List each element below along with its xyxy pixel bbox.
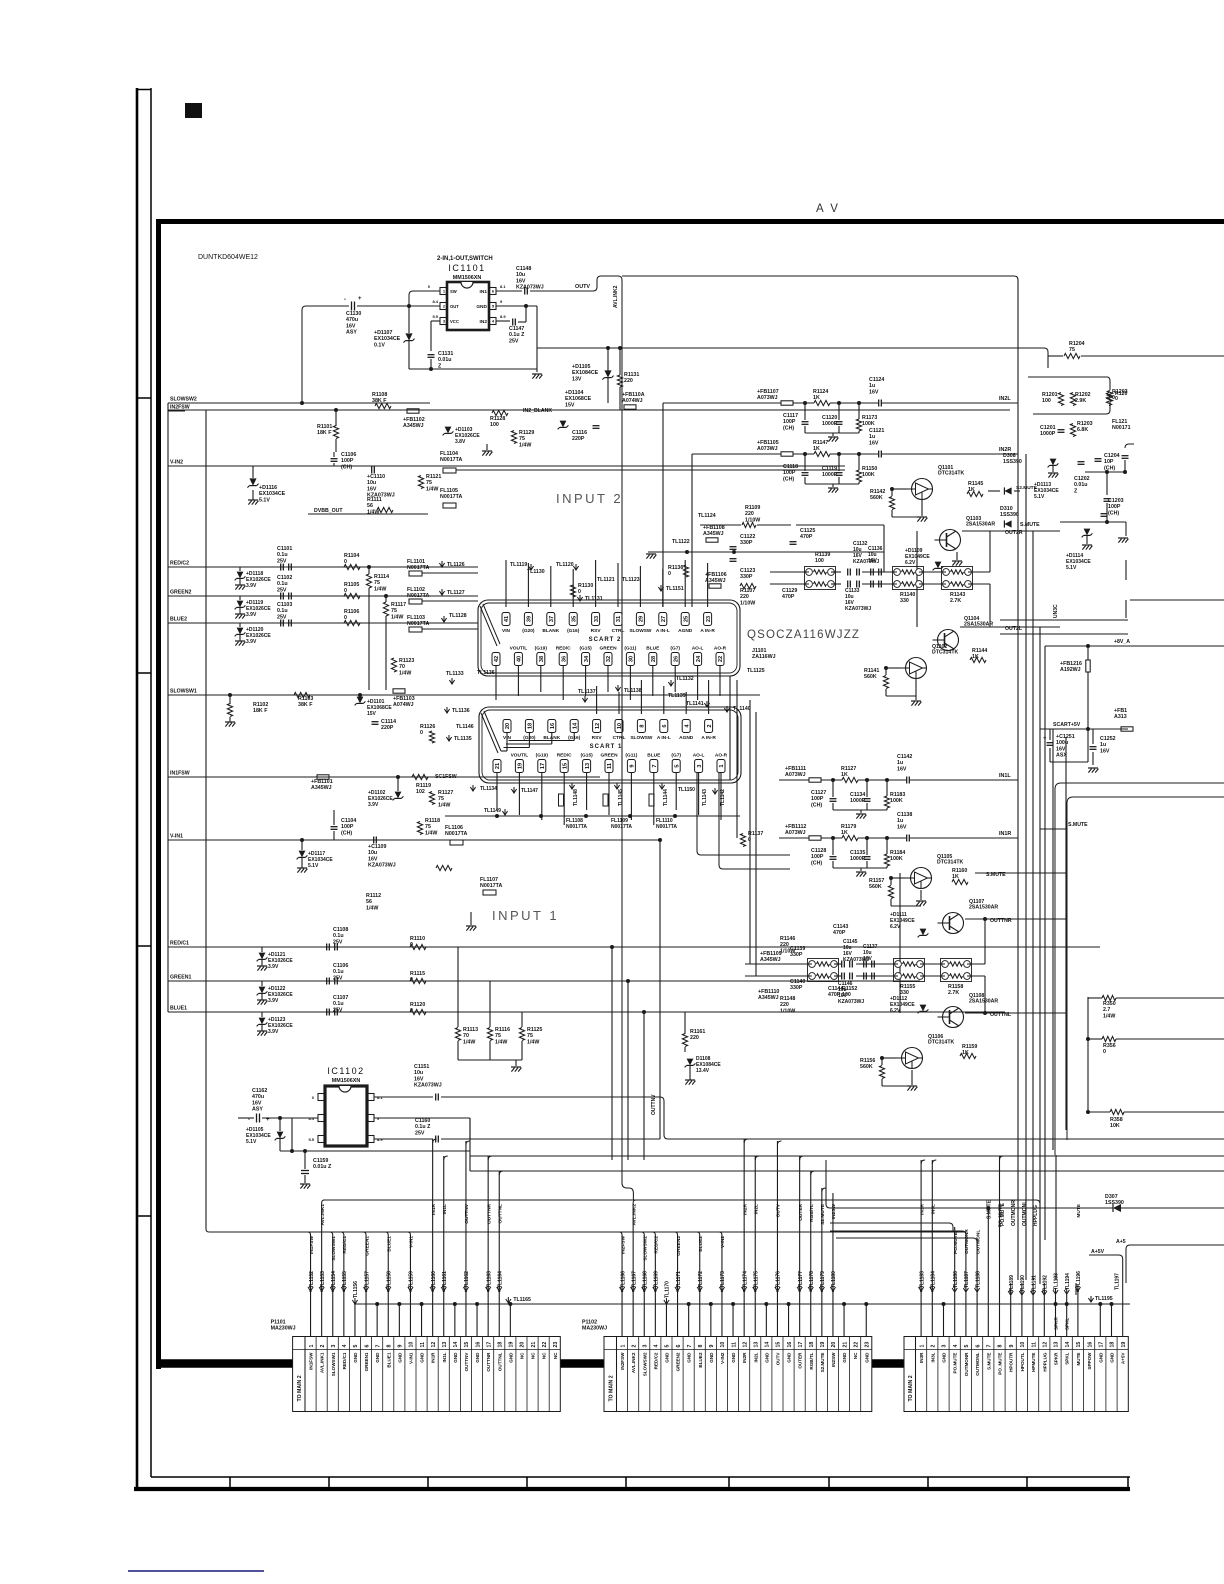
zener diode +D1119	[237, 601, 244, 608]
svg-text:TL1122: TL1122	[672, 539, 690, 545]
SCART 1 pin 8	[637, 720, 645, 733]
svg-text:5.9: 5.9	[432, 314, 438, 319]
svg-text:+FB1105: +FB1105	[757, 440, 779, 446]
svg-text:C1140: C1140	[790, 979, 805, 985]
SCART 2 pin 25	[681, 613, 689, 626]
wire P1103 pin10 short riser	[1021, 1283, 1023, 1337]
svg-text:BLUE: BLUE	[646, 646, 660, 652]
svg-text:2.9K: 2.9K	[1075, 398, 1086, 404]
svg-text:R1152: R1152	[842, 986, 857, 992]
svg-text:16V: 16V	[868, 558, 878, 564]
testpoint TL1187	[963, 1288, 968, 1292]
wire rgb1 bottoms	[457, 1041, 459, 1060]
svg-text:560K: 560K	[869, 884, 882, 890]
svg-text:100P: 100P	[341, 824, 354, 830]
wire P1102 pin1 riser IN2FSW	[621, 1235, 623, 1337]
svg-text:25: 25	[683, 616, 689, 622]
svg-text:1: 1	[919, 1345, 925, 1348]
testpoint TL1179	[819, 1287, 824, 1291]
svg-text:(CH): (CH)	[341, 830, 352, 836]
ground +D1119	[235, 613, 245, 615]
svg-text:TL1146: TL1146	[456, 724, 474, 730]
wire P1102 pin10 riser V-IN2	[721, 1235, 723, 1337]
svg-text:(G15): (G15)	[580, 753, 593, 759]
svg-text:100K: 100K	[890, 856, 903, 862]
svg-text:R1139: R1139	[815, 552, 830, 558]
svg-text:TL1184: TL1184	[931, 1271, 937, 1288]
resistor R1125	[519, 1028, 524, 1041]
svg-text:TL1126: TL1126	[447, 562, 465, 568]
svg-text:C1118: C1118	[783, 464, 798, 470]
wire x1088 long	[1087, 997, 1089, 1114]
svg-text:OUTTNV: OUTTNV	[464, 1203, 470, 1224]
svg-text:39: 39	[527, 616, 533, 622]
wire right top corner	[1047, 356, 1049, 368]
testpoint TL1162	[463, 1287, 468, 1291]
svg-text:TL1123: TL1123	[622, 577, 640, 583]
svg-text:INPUT 1: INPUT 1	[492, 908, 559, 923]
svg-text:GREEN: GREEN	[599, 646, 617, 652]
svg-text:A345WJ: A345WJ	[758, 995, 779, 1001]
svg-text:IN1FSW: IN1FSW	[309, 1236, 315, 1255]
svg-text:12: 12	[431, 1342, 437, 1348]
SCART 1 pin 6	[660, 720, 668, 733]
svg-text:MA230WJ: MA230WJ	[271, 1326, 296, 1332]
svg-text:19: 19	[820, 1342, 826, 1348]
svg-text:TL1192: TL1192	[1043, 1275, 1049, 1292]
svg-text:10u: 10u	[414, 1070, 423, 1076]
svg-text:C1134: C1134	[850, 792, 865, 798]
svg-text:0.01u: 0.01u	[1074, 482, 1088, 488]
svg-text:C1120: C1120	[822, 415, 837, 421]
svg-text:DTC314TK: DTC314TK	[937, 860, 963, 866]
zener diode +D1120	[237, 628, 244, 635]
wire P1101 pin16 gnd riser	[476, 1304, 478, 1337]
svg-text:R1155: R1155	[900, 984, 915, 990]
svg-text:+FB1107: +FB1107	[757, 389, 779, 395]
wire P1102 pin4 riser RED/C2	[654, 1235, 656, 1337]
svg-text:GREEN2: GREEN2	[676, 1236, 682, 1256]
SCART 2 pin 24	[694, 653, 702, 666]
svg-text:R1143: R1143	[950, 592, 965, 598]
svg-text:+FB1103: +FB1103	[393, 696, 415, 702]
svg-text:OUTV: OUTV	[775, 1352, 780, 1366]
testpoint TL1175	[753, 1287, 758, 1291]
svg-text:TL1159: TL1159	[409, 1271, 415, 1288]
testpoint TL1158	[386, 1287, 391, 1291]
svg-text:FL1103: FL1103	[407, 615, 425, 621]
svg-text:FL121: FL121	[1112, 419, 1127, 425]
svg-text:TL1148: TL1148	[573, 789, 579, 806]
wire long rail y348	[537, 347, 1044, 349]
svg-text:AVL.INK1: AVL.INK1	[320, 1352, 325, 1373]
SCART 1 pin 11	[605, 760, 613, 773]
svg-text:TL1191: TL1191	[1031, 1275, 1037, 1292]
svg-text:A IN-R: A IN-R	[701, 735, 716, 741]
SCART 1 pin 1	[717, 760, 725, 773]
wire red2 to scart	[360, 566, 409, 568]
svg-text:IN2: IN2	[480, 319, 488, 325]
svg-text:1K: 1K	[813, 395, 820, 401]
svg-text:N0017TA: N0017TA	[611, 824, 632, 830]
filter FL chain B	[893, 567, 924, 590]
svg-text:+8V_A: +8V_A	[1114, 639, 1130, 645]
svg-text:A345WJ: A345WJ	[703, 531, 724, 537]
zener diode D1117	[299, 851, 306, 858]
svg-text:10: 10	[409, 1342, 415, 1348]
svg-text:IN1FSW: IN1FSW	[170, 771, 190, 777]
svg-text:R1117: R1117	[391, 602, 406, 608]
ground D1108	[689, 1066, 691, 1080]
svg-text:R1120: R1120	[410, 1002, 425, 1008]
svg-text:220P: 220P	[381, 725, 394, 731]
svg-text:(G20): (G20)	[522, 628, 535, 634]
svg-text:C1114: C1114	[381, 719, 396, 725]
testpoint TL1193	[1053, 1290, 1058, 1294]
svg-text:+FB110A: +FB110A	[622, 392, 645, 398]
svg-text:KZA073WJ: KZA073WJ	[838, 999, 864, 1005]
wire IN2L riser from A IN-L	[662, 403, 664, 607]
zener diode +D1123	[259, 1018, 266, 1025]
svg-text:2SA1530AR: 2SA1530AR	[969, 905, 998, 911]
svg-text:6.2V: 6.2V	[890, 924, 901, 930]
svg-text:C1127: C1127	[811, 790, 826, 796]
svg-text:A345WJ: A345WJ	[403, 423, 424, 429]
svg-text:A V: A V	[816, 203, 840, 215]
svg-text:TL1121: TL1121	[597, 577, 615, 583]
ground C1159	[300, 1183, 310, 1185]
svg-text:IN1L: IN1L	[999, 773, 1011, 779]
SCART 1 pin 7	[650, 760, 658, 773]
svg-text:1u: 1u	[869, 383, 875, 389]
connector pin separator	[749, 1337, 751, 1412]
svg-text:C1128: C1128	[811, 848, 826, 854]
svg-text:100K: 100K	[862, 472, 875, 478]
svg-text:9: 9	[398, 1345, 404, 1348]
svg-text:A313: A313	[1114, 714, 1127, 720]
connector pin separator	[1060, 1337, 1062, 1412]
svg-text:R1106: R1106	[344, 609, 359, 615]
wire C1130 to IC1101	[302, 306, 349, 403]
SCART 1 pin 16	[548, 720, 556, 733]
svg-text:6: 6	[662, 724, 668, 727]
connector pin separator	[471, 1337, 473, 1412]
svg-text:10P: 10P	[1104, 459, 1114, 465]
wire green2 to scart	[360, 595, 409, 597]
svg-text:0: 0	[578, 589, 581, 595]
testpoint TL1180	[830, 1287, 835, 1291]
svg-text:22: 22	[853, 1342, 859, 1348]
svg-text:IN1R: IN1R	[431, 1203, 437, 1214]
svg-text:R1128: R1128	[490, 416, 505, 422]
svg-text:330P: 330P	[740, 574, 753, 580]
svg-text:1/4W: 1/4W	[366, 905, 378, 911]
testpoint TL1194	[1064, 1290, 1069, 1294]
svg-text:V-IN2: V-IN2	[720, 1352, 725, 1364]
svg-text:21: 21	[531, 1342, 537, 1348]
svg-text:TL1135: TL1135	[454, 736, 472, 742]
svg-text:NC: NC	[542, 1352, 547, 1359]
svg-text:R1108: R1108	[372, 392, 387, 398]
svg-text:TL1160: TL1160	[431, 1271, 437, 1288]
testpoint TL1155	[341, 1287, 346, 1291]
svg-text:AGND: AGND	[679, 735, 694, 741]
svg-text:29: 29	[639, 616, 645, 622]
wire P1101 pin4 riser RED/C1	[343, 1235, 345, 1337]
svg-text:40: 40	[517, 656, 523, 662]
svg-text:PO_MUTE: PO_MUTE	[998, 1203, 1004, 1227]
connector P1101 body	[293, 1337, 561, 1412]
zener diode D1116	[249, 478, 256, 485]
connector pin divider line	[604, 1349, 872, 1351]
svg-text:16V: 16V	[346, 323, 356, 329]
svg-text:FL1102: FL1102	[407, 587, 425, 593]
svg-text:TL1136: TL1136	[477, 670, 495, 676]
svg-text:TL1150: TL1150	[678, 787, 695, 793]
IC1101 pins left	[440, 288, 447, 295]
wire SLOWSW1	[168, 694, 760, 696]
wire P1101 pin1 riser IN1FSW	[310, 1235, 312, 1337]
SCART 1 pin 14 internal wire	[573, 733, 575, 741]
svg-text:(G7): (G7)	[671, 753, 681, 759]
svg-text:1u: 1u	[897, 760, 903, 766]
svg-text:220: 220	[624, 378, 633, 384]
SCART 1 pin 19	[515, 760, 523, 773]
svg-text:C1102: C1102	[277, 575, 292, 581]
svg-text:TL1134: TL1134	[480, 786, 497, 792]
connector pin separator	[638, 1337, 640, 1412]
svg-text:560K: 560K	[870, 495, 883, 501]
svg-text:OUTMONR: OUTMONR	[964, 1229, 970, 1254]
svg-text:7: 7	[375, 1345, 381, 1348]
SCART 1 pin 20 internal wire	[506, 733, 508, 752]
svg-text:16V: 16V	[869, 440, 879, 446]
ground D1116	[248, 499, 258, 501]
testpoint TL1178	[808, 1287, 813, 1291]
svg-text:A IN-L: A IN-L	[656, 628, 670, 634]
svg-text:C1148: C1148	[516, 266, 531, 272]
svg-text:41: 41	[504, 616, 510, 622]
svg-text:1/4W: 1/4W	[495, 1039, 507, 1045]
connector pin separator	[537, 1337, 539, 1412]
svg-text:TL1137: TL1137	[578, 689, 596, 695]
svg-text:25V: 25V	[277, 587, 287, 593]
ground y552	[646, 553, 656, 555]
testpoint TL1176	[775, 1287, 780, 1291]
svg-text:C1135: C1135	[850, 850, 865, 856]
wire P1102 pin9 gnd riser	[710, 1304, 712, 1337]
SCART 2 pin 38	[537, 653, 545, 666]
svg-text:19: 19	[1121, 1342, 1127, 1348]
svg-text:2SA1530AR: 2SA1530AR	[966, 522, 995, 528]
svg-text:TL1147: TL1147	[521, 788, 538, 794]
ground R1102	[225, 721, 235, 723]
svg-text:7: 7	[652, 764, 658, 767]
svg-text:N0017TA: N0017TA	[445, 831, 467, 837]
svg-text:GREEN1: GREEN1	[364, 1352, 369, 1371]
svg-text:S.MUTE: S.MUTE	[1068, 822, 1088, 828]
svg-text:TL1167: TL1167	[631, 1271, 637, 1288]
svg-text:17: 17	[486, 1342, 492, 1348]
wire P1103 pin4 riser corner	[954, 1227, 956, 1337]
svg-text:1K: 1K	[841, 772, 848, 778]
connector pin separator	[415, 1337, 417, 1412]
svg-text:23: 23	[553, 1342, 559, 1348]
SCART 2 entry sweep	[480, 606, 497, 646]
resistor R1112	[436, 865, 452, 870]
svg-text:11: 11	[731, 1342, 737, 1348]
connector pin separator	[504, 1337, 506, 1412]
svg-text:IN1FSW: IN1FSW	[309, 1352, 314, 1370]
connector pin separator	[1071, 1337, 1073, 1412]
svg-text:3.9V: 3.9V	[368, 802, 379, 808]
testpoint TL1168	[642, 1287, 647, 1291]
svg-text:16V: 16V	[516, 278, 526, 284]
svg-text:560K: 560K	[864, 674, 877, 680]
svg-text:TO MAIN 2: TO MAIN 2	[297, 1375, 303, 1401]
wire BLUE1	[168, 1011, 1005, 1013]
SCART 2 pin 30	[626, 653, 634, 666]
connector pin separator	[993, 1337, 995, 1412]
svg-text:19: 19	[518, 763, 524, 769]
svg-text:30: 30	[629, 656, 635, 662]
svg-text:A073WJ: A073WJ	[757, 446, 778, 452]
svg-text:VOUT/L: VOUT/L	[511, 753, 529, 759]
svg-text:C1252: C1252	[1100, 736, 1116, 742]
svg-text:TL1136: TL1136	[452, 708, 470, 714]
svg-text:470u: 470u	[346, 317, 358, 323]
svg-text:R1112: R1112	[366, 893, 381, 899]
svg-text:PO.MUTE: PO.MUTE	[953, 1353, 958, 1374]
svg-text:(G19): (G19)	[536, 753, 549, 759]
svg-text:3: 3	[331, 1345, 337, 1348]
svg-text:16V: 16V	[367, 486, 377, 492]
svg-text:SLOWSW1: SLOWSW1	[331, 1352, 336, 1376]
svg-text:FL1106: FL1106	[445, 825, 463, 831]
svg-text:RED/C1: RED/C1	[342, 1352, 347, 1369]
svg-text:OUTTNL: OUTTNL	[497, 1352, 502, 1371]
IC1101 pins right	[489, 288, 496, 295]
svg-text:R1109: R1109	[745, 505, 760, 511]
svg-text:MM1506XN: MM1506XN	[453, 275, 482, 281]
wire P1102 pin15 riser OUTV	[776, 1141, 778, 1337]
testpoint TL1169	[653, 1287, 658, 1291]
svg-text:21: 21	[842, 1342, 848, 1348]
ground Q1102	[915, 679, 917, 701]
svg-text:BLANK: BLANK	[542, 628, 559, 634]
svg-text:0.1u Z: 0.1u Z	[509, 332, 525, 338]
wire S_MUTE bottom line	[830, 1207, 1113, 1209]
svg-text:28: 28	[651, 656, 657, 662]
wire into chain TN	[745, 963, 812, 965]
zener diode D1102	[395, 792, 402, 799]
svg-text:1K: 1K	[813, 446, 820, 452]
svg-text:70: 70	[463, 1033, 469, 1039]
wire GREEN1	[168, 980, 920, 982]
svg-text:RED/C: RED/C	[556, 646, 571, 652]
wire chain A-B	[831, 571, 841, 573]
svg-text:R1140: R1140	[900, 592, 915, 598]
svg-text:TL1145: TL1145	[618, 789, 624, 806]
svg-text:A192WJ: A192WJ	[1060, 667, 1081, 673]
svg-text:SLOWSW1: SLOWSW1	[170, 689, 197, 695]
svg-text:1/4W: 1/4W	[463, 1039, 475, 1045]
svg-text:(CH): (CH)	[783, 476, 794, 482]
svg-text:C1139: C1139	[790, 946, 805, 952]
page frame inner left rule	[150, 88, 152, 1477]
svg-text:S.MUTE: S.MUTE	[1020, 522, 1040, 528]
svg-text:+D1116: +D1116	[259, 485, 277, 491]
transistor Q1108	[943, 1007, 964, 1028]
svg-text:N0017TA: N0017TA	[407, 593, 429, 599]
svg-text:15V: 15V	[367, 711, 377, 717]
svg-text:HPPLUG: HPPLUG	[1042, 1352, 1047, 1372]
svg-text:EX1068CE: EX1068CE	[565, 396, 592, 402]
svg-text:14: 14	[765, 1342, 771, 1348]
wire P1102 pin19 riser S2.MUTE	[821, 1188, 823, 1337]
SCART 1 pin 3	[695, 760, 703, 773]
connector pin separator	[926, 1337, 928, 1412]
svg-text:5.1V: 5.1V	[308, 863, 319, 869]
SCART 2 pin 40	[514, 653, 522, 666]
svg-text:A073WJ: A073WJ	[757, 395, 778, 401]
wire sc1fsw	[432, 776, 520, 778]
svg-text:TL1194: TL1194	[1065, 1273, 1071, 1290]
svg-text:100P: 100P	[341, 458, 354, 464]
svg-text:C1119: C1119	[822, 466, 837, 472]
svg-text:(CH): (CH)	[811, 860, 822, 866]
svg-text:6: 6	[364, 1345, 370, 1348]
wire OUTV	[530, 290, 593, 292]
svg-text:GND: GND	[353, 1352, 358, 1363]
svg-text:TL1183: TL1183	[919, 1271, 925, 1288]
svg-text:OUTMONR: OUTMONR	[964, 1352, 969, 1376]
svg-text:TL1166: TL1166	[620, 1271, 626, 1288]
svg-text:(CH): (CH)	[1108, 510, 1119, 516]
svg-text:0.1V: 0.1V	[374, 342, 385, 348]
svg-text:OUTTNL: OUTTNL	[497, 1204, 503, 1224]
svg-text:1000P: 1000P	[1040, 431, 1056, 437]
svg-text:SCART 2: SCART 2	[589, 637, 622, 643]
svg-text:R1136: R1136	[668, 565, 683, 571]
svg-text:TL1154: TL1154	[331, 1271, 337, 1288]
svg-text:DTC314TK: DTC314TK	[938, 471, 964, 477]
resistor R1117	[383, 602, 388, 616]
svg-text:A+5V: A+5V	[1121, 1352, 1126, 1365]
svg-text:2: 2	[931, 1345, 937, 1348]
svg-text:0.1u: 0.1u	[277, 581, 288, 587]
svg-text:100P: 100P	[783, 470, 796, 476]
svg-text:TL1141: TL1141	[686, 701, 704, 707]
svg-text:VOUT/L: VOUT/L	[510, 646, 528, 652]
svg-text:16: 16	[1087, 1342, 1093, 1348]
svg-text:+FB1109: +FB1109	[760, 951, 782, 957]
svg-text:VCC: VCC	[450, 319, 459, 324]
svg-text:BLUE2: BLUE2	[170, 617, 187, 623]
svg-text:TL1163: TL1163	[486, 1271, 492, 1288]
wire P1102 pin16 gnd riser	[788, 1304, 790, 1337]
svg-text:16: 16	[550, 723, 556, 729]
svg-text:R1130: R1130	[578, 583, 593, 589]
svg-text:13: 13	[1054, 1342, 1060, 1348]
svg-text:TL1119: TL1119	[510, 562, 527, 568]
svg-text:R1202: R1202	[1075, 392, 1091, 398]
svg-text:HPMUTE: HPMUTE	[1031, 1353, 1036, 1372]
wire P1103 pin15 riser MUTE	[1077, 1288, 1079, 1337]
svg-text:330P: 330P	[790, 952, 803, 958]
svg-text:37: 37	[549, 616, 555, 622]
svg-text:IN3R: IN3R	[919, 1203, 925, 1214]
